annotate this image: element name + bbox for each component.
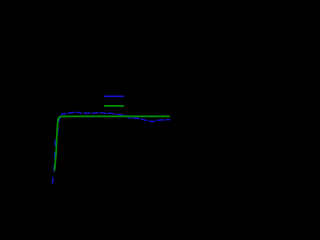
legend blue line <box>104 95 124 97</box>
blue curve plateau section (dashed noisy estimate) <box>61 112 171 121</box>
legend green line <box>104 105 124 107</box>
green curve (solid reference) <box>55 116 170 169</box>
green curve fading tail <box>53 169 55 173</box>
blue curve steep section (dashed noisy estimate) <box>52 116 60 184</box>
